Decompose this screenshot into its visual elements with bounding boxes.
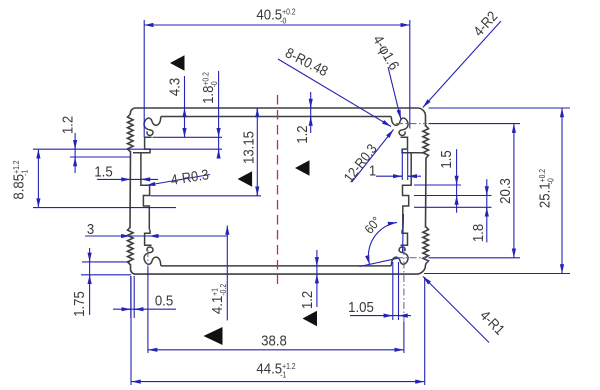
leader 12-R0.3: [352, 130, 394, 183]
svg-text:1.8: 1.8: [469, 224, 486, 242]
dimension 60 degrees: [368, 222, 397, 264]
svg-text:1.05: 1.05: [348, 298, 374, 315]
screw boss top-left: [144, 117, 161, 136]
screw boss bottom-left: [144, 247, 161, 266]
surface finish triangle 1: [170, 55, 185, 71]
dimension 20.3 right: [429, 123, 521, 125]
svg-text:13.15: 13.15: [240, 131, 257, 164]
dimension 1.2 left: [70, 156, 131, 158]
dimension 4.3 top-left: [184, 76, 186, 137]
dimension 8.85 left: [37, 149, 39, 207]
dimension 1.05 bottom: [392, 262, 394, 320]
svg-text:0.5: 0.5: [155, 292, 173, 309]
wire: right inner wall with PCB slots: [402, 153, 411, 230]
wire: top-left wall shelf and boss stem: [133, 137, 152, 153]
dimension 13.15 center-left: [151, 195, 262, 197]
wire: top-right wall shelf and boss stem: [400, 137, 419, 153]
dimension 1.2 top wall: [310, 92, 312, 133]
node: boss center lines (dash-dot): [396, 123, 427, 125]
wire: bottom-left wall shelf and boss stem: [145, 230, 152, 246]
wire: profile outer boundary with knurled sections: [128, 108, 429, 274]
dimension 1 top right (boss wall): [401, 150, 403, 180]
dimension 1.5 right: [414, 184, 461, 186]
leader 8-R0.48: [278, 59, 391, 127]
dimension 1.5 left wall: [97, 178, 158, 180]
dimension 40.5 top: [143, 20, 145, 137]
dimension 1.75 bottom-left: [82, 261, 130, 263]
leader 4-R0.3: [146, 175, 210, 186]
surface finish triangle 5: [204, 327, 223, 345]
svg-text:1.2: 1.2: [59, 116, 76, 134]
wire: bottom-right wall shelf and boss stem: [400, 230, 407, 246]
svg-text:1: 1: [369, 162, 376, 179]
svg-text:38.8: 38.8: [261, 332, 287, 349]
svg-text:1.5: 1.5: [437, 150, 454, 168]
svg-text:1.2: 1.2: [298, 291, 315, 309]
dimension 1.8 right: [414, 206, 492, 208]
dimension 1.8 +0.2/-0 top-left: [153, 136, 223, 138]
dimension 38.8 bottom: [147, 267, 149, 353]
dimension 4.1 +1/-0.2 bottom: [226, 226, 228, 321]
wire: right shelf patches: [419, 152, 425, 154]
wire: top inner wall: [161, 116, 391, 118]
surface finish triangle 4: [303, 311, 318, 327]
svg-text:1.2: 1.2: [293, 125, 310, 143]
svg-text:1.5: 1.5: [94, 163, 112, 180]
dimension 3 left: [85, 235, 227, 237]
surface finish triangle 3: [295, 160, 310, 176]
surface finish triangle 2: [238, 171, 253, 187]
svg-text:20.3: 20.3: [496, 178, 513, 204]
wire: left inner wall with PCB slots: [141, 153, 150, 230]
dimension 1.2 bottom wall: [316, 250, 318, 307]
dimension 25.1 right: [429, 107, 571, 109]
leader 4-R1: [423, 277, 489, 343]
screw boss bottom-right: [391, 247, 408, 266]
svg-text:1.75: 1.75: [70, 291, 87, 317]
dimension 0.5 bottom-left: [130, 276, 132, 318]
svg-text:4.3: 4.3: [166, 78, 183, 96]
dimension 44.5 bottom: [130, 276, 132, 385]
leader 4-R2: [423, 21, 501, 108]
screw boss top-right: [391, 117, 408, 136]
node: vertical red centerline: [277, 95, 279, 284]
leader 4-phi1.6: [388, 67, 401, 119]
wire: bottom inner wall: [161, 265, 391, 267]
svg-text:4.1+1-0.2: 4.1+1-0.2: [208, 284, 228, 314]
svg-text:3: 3: [87, 220, 94, 237]
